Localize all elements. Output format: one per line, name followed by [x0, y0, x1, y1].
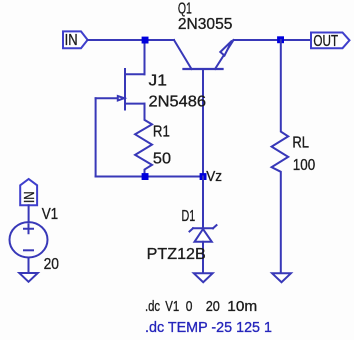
wire Vz down to D1 [202, 177, 204, 229]
svg-text:2N3055: 2N3055 [178, 16, 233, 33]
svg-text:PTZ12B: PTZ12B [147, 246, 206, 263]
zener diode D1 [190, 225, 217, 273]
svg-text:2N5486: 2N5486 [149, 93, 207, 110]
svg-text:R1: R1 [153, 123, 170, 140]
svg-text:Vz: Vz [206, 168, 222, 185]
svg-text:IN: IN [21, 192, 38, 204]
svg-text:OUT: OUT [313, 33, 338, 50]
svg-text:V1: V1 [165, 298, 179, 315]
node junction at IN rail / J1 drain [142, 37, 149, 44]
port OUT [311, 33, 350, 51]
svg-text:50: 50 [153, 151, 171, 168]
svg-text:.dc: .dc [145, 298, 160, 315]
directive .dc V1 0 20 10m [145, 298, 257, 315]
wire port to circle [28, 205, 30, 221]
ground under V1 [19, 273, 38, 282]
wire gate feedback down to rail [95, 98, 97, 176]
svg-text:D1: D1 [182, 208, 196, 225]
svg-text:IN: IN [65, 32, 78, 49]
wire emitter to OUT [234, 39, 312, 41]
port pentagon (rotated IN) [20, 179, 37, 205]
ground under D1 [194, 273, 213, 282]
svg-text:20: 20 [206, 298, 220, 315]
wire Vz rail [96, 176, 203, 178]
svg-text:0: 0 [186, 298, 193, 315]
voltage source V1 [10, 179, 48, 282]
minus sign [24, 249, 33, 251]
resistor R1 [135, 104, 152, 177]
plus sign [24, 224, 33, 233]
node junction R1 bottom [142, 173, 149, 180]
ground under RL [272, 273, 291, 282]
wire Q1 base down to Vz rail [202, 69, 204, 177]
source circle [10, 222, 48, 257]
svg-text:100: 100 [293, 157, 315, 174]
wire IN to collector bend [88, 39, 174, 41]
node junction Vz [200, 173, 207, 180]
svg-text:RL: RL [292, 135, 309, 152]
resistor RL [272, 40, 289, 273]
JFET J1 [96, 69, 145, 110]
wire junction down to J1 drain [144, 40, 146, 74]
wire circle to ground [28, 258, 30, 273]
svg-text:V1: V1 [42, 206, 59, 223]
svg-text:20: 20 [44, 256, 59, 273]
svg-text:J1: J1 [149, 73, 168, 90]
svg-text:10m: 10m [227, 298, 257, 315]
port IN [63, 31, 88, 48]
transistor Q1 [174, 40, 234, 69]
node junction at OUT / RL [277, 36, 284, 43]
svg-text:.dc TEMP -25 125 1: .dc TEMP -25 125 1 [145, 319, 272, 336]
